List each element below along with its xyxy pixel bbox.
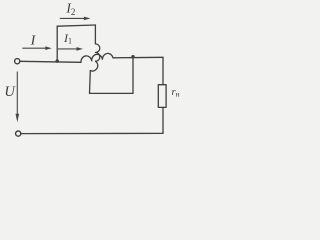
inductor L2 (vertical, two humps + hook)	[90, 44, 100, 71]
inductor L1 (horizontal, three humps)	[81, 53, 113, 62]
wire: return loop bottom	[90, 92, 134, 94]
wire: resistor to bottom rail	[162, 107, 164, 133]
svg-text:rн: rн	[172, 87, 180, 99]
node A junction dot	[56, 59, 59, 62]
terminal: upper input	[15, 59, 20, 64]
wire: coil L1 to right corner	[113, 56, 163, 59]
wire: right side down to resistor	[162, 57, 164, 84]
wire: down to coil L2	[94, 25, 96, 44]
voltage arrow U	[16, 72, 20, 123]
svg-text:U: U	[4, 84, 16, 100]
current arrow I	[22, 46, 52, 50]
wire: return loop up to node B	[132, 57, 134, 93]
wire: top rail	[57, 25, 95, 26]
current arrow I1	[58, 47, 83, 51]
current arrow I2	[60, 17, 91, 21]
resistor r_H body	[158, 85, 166, 108]
wire: bottom rail	[21, 132, 163, 134]
wire: L2 bottom down	[89, 71, 92, 94]
terminal: lower input	[16, 131, 21, 136]
node B junction dot	[131, 55, 134, 58]
wire: upper terminal to coil L1	[20, 61, 81, 62]
wire: branch up from node A	[56, 26, 58, 61]
